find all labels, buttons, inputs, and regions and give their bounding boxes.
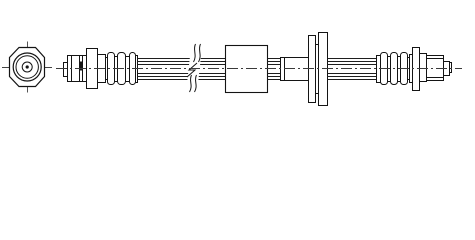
fitting end-view center dot xyxy=(26,65,29,68)
fitting left body line 1 xyxy=(71,56,73,82)
sleeve left waist 1 xyxy=(115,57,118,82)
sleeve right lobe 3 xyxy=(401,53,408,85)
hose break curve top right xyxy=(199,44,201,62)
sleeve right cup neck xyxy=(408,58,410,80)
fitting right cylinder chamfer top xyxy=(427,58,444,60)
fitting end-view outer circle xyxy=(13,53,41,81)
fitting left body line 3 xyxy=(82,56,84,82)
sleeve right waist 2 xyxy=(398,57,401,82)
fitting right cylinder chamfer bottom xyxy=(427,77,444,79)
hose break curve top left xyxy=(194,44,196,62)
fitting left body xyxy=(68,56,87,82)
node end-view crosshair vertical xyxy=(27,42,29,93)
sleeve left cup xyxy=(98,55,106,83)
sleeve right lobe 2 xyxy=(391,53,398,85)
node end-view crosshair horizontal xyxy=(2,67,52,69)
sleeve left lobe 1 xyxy=(108,53,115,85)
fitting end-view mid circle xyxy=(16,56,38,78)
grommet groove xyxy=(316,45,319,94)
grommet hub line xyxy=(284,58,286,81)
sleeve right cup xyxy=(410,55,413,83)
hose break curve bottom right xyxy=(195,75,197,92)
hose segment 2 xyxy=(268,59,281,80)
hose segment 3 xyxy=(328,59,377,80)
sleeve left end bar xyxy=(136,56,138,83)
grommet flange 2 xyxy=(319,33,328,106)
grommet hub xyxy=(281,58,309,81)
sleeve right end bar xyxy=(377,56,381,83)
fitting end-view octagon xyxy=(10,48,45,87)
fitting left tube stub xyxy=(64,63,68,77)
sleeve right waist 1 xyxy=(388,57,391,82)
sleeve left lobe 3 xyxy=(130,53,136,85)
grommet flange 1 xyxy=(309,36,316,103)
sleeve left waist 2 xyxy=(126,57,130,82)
centerline xyxy=(56,68,462,70)
fitting left body line 2 xyxy=(79,56,81,82)
fitting right tip xyxy=(444,62,450,76)
clamp block xyxy=(226,46,268,93)
fitting end-view inner circle xyxy=(22,62,32,72)
hose break curve bottom left xyxy=(190,75,192,92)
hose break zigzag arrow xyxy=(187,63,197,77)
sleeve left lobe 2 xyxy=(118,53,126,85)
sleeve right lobe 1 xyxy=(381,53,388,85)
fitting right collar xyxy=(420,54,427,82)
hose break gap xyxy=(186,47,202,93)
hose segment 1 xyxy=(138,59,226,80)
fitting right cylinder xyxy=(427,56,444,81)
fitting left hex nut xyxy=(87,49,98,89)
fitting right tip cap xyxy=(450,63,452,73)
fitting right hex nut xyxy=(413,48,420,91)
sleeve left cup neck xyxy=(106,58,108,80)
fitting left body black mark xyxy=(80,62,83,71)
